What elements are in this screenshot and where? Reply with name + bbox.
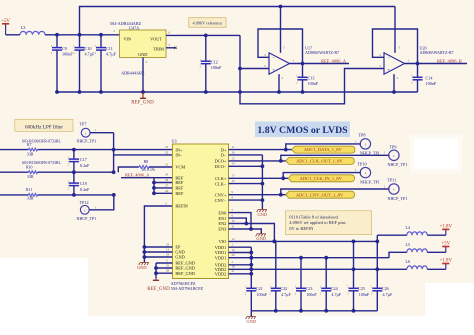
svg-text:REF_GND: REF_GND bbox=[147, 287, 170, 292]
wire +5V to L3 bbox=[6, 34, 20, 36]
svg-text:28: 28 bbox=[166, 269, 170, 273]
junction C12 top bbox=[204, 34, 208, 38]
svg-text:+: + bbox=[387, 67, 390, 72]
svg-text:VDD2: VDD2 bbox=[215, 272, 227, 277]
svg-text:CNV−: CNV− bbox=[215, 198, 227, 203]
svg-text:25: 25 bbox=[166, 263, 170, 267]
svg-text:L4: L4 bbox=[406, 225, 411, 230]
svg-text:R10: R10 bbox=[26, 166, 33, 170]
wire D+ to flag bbox=[229, 149, 292, 151]
svg-text:GND: GND bbox=[137, 265, 147, 270]
note REFIN configuration bbox=[285, 211, 371, 235]
svg-text:20: 20 bbox=[232, 253, 236, 257]
svg-text:R8: R8 bbox=[144, 160, 149, 164]
svg-text:IN−: IN− bbox=[175, 153, 183, 158]
svg-text:C19: C19 bbox=[80, 181, 87, 186]
svg-text:AD8065WARTZ-R7: AD8065WARTZ-R7 bbox=[420, 50, 454, 55]
junction C10 bottom bbox=[78, 90, 82, 94]
svg-text:8.2nF: 8.2nF bbox=[80, 163, 90, 168]
svg-text:−: − bbox=[272, 55, 275, 60]
junction C11 top bbox=[99, 33, 103, 37]
svg-text:GND: GND bbox=[258, 212, 268, 217]
svg-text:TP10: TP10 bbox=[358, 161, 367, 166]
svg-text:1: 1 bbox=[365, 171, 367, 175]
svg-text:EN3: EN3 bbox=[218, 227, 226, 232]
junction cap bottom bbox=[324, 309, 328, 313]
junction VDD2 tie bbox=[249, 267, 253, 271]
svg-text:L6: L6 bbox=[406, 259, 411, 264]
capacitor C14 100nF bbox=[411, 64, 437, 93]
test point TP7 bbox=[77, 122, 97, 144]
svg-text:VIO: VIO bbox=[219, 239, 227, 244]
svg-text:GND: GND bbox=[246, 319, 256, 324]
ground GND symbol EN bbox=[256, 234, 266, 237]
svg-text:C22: C22 bbox=[280, 286, 287, 291]
svg-text:100nF: 100nF bbox=[359, 292, 370, 297]
svg-text:C17: C17 bbox=[80, 157, 87, 162]
wire L3 to U47A VIN bbox=[45, 34, 120, 36]
wire VOUT to buffer + inputs (rail B) bbox=[240, 35, 384, 103]
svg-text:ADC1_CNV_OUT_1_8V: ADC1_CNV_OUT_1_8V bbox=[296, 192, 344, 197]
power port +1.8V bottom bbox=[445, 264, 447, 270]
svg-text:NHCP_TP1: NHCP_TP1 bbox=[360, 179, 380, 184]
wire CLK+ to flag bbox=[229, 177, 289, 179]
svg-text:NHCP_TP1: NHCP_TP1 bbox=[77, 139, 97, 144]
svg-text:NHCP_TP1: NHCP_TP1 bbox=[388, 196, 408, 201]
wire U17 V- down bbox=[278, 74, 280, 92]
junction U17 output / C13 bbox=[301, 62, 305, 66]
svg-text:L5: L5 bbox=[406, 242, 411, 247]
wire DCO+ to flag bbox=[229, 160, 286, 162]
svg-text:−: − bbox=[387, 55, 390, 60]
junction U47A GND bbox=[141, 90, 145, 94]
wire U20 feedback loop bbox=[373, 29, 418, 64]
svg-text:11: 11 bbox=[232, 145, 235, 149]
svg-text:ADC1_CLK_IN_1_8V: ADC1_CLK_IN_1_8V bbox=[300, 176, 343, 181]
svg-text:15: 15 bbox=[232, 156, 236, 160]
svg-text:+: + bbox=[272, 67, 275, 72]
svg-text:R11: R11 bbox=[26, 188, 32, 192]
svg-text:REF: REF bbox=[175, 180, 184, 185]
svg-text:+5V: +5V bbox=[441, 242, 450, 247]
junction cap bottom bbox=[274, 309, 278, 313]
svg-text:VIN: VIN bbox=[124, 37, 132, 42]
white margin bottom-left bbox=[0, 258, 88, 330]
svg-text:12: 12 bbox=[232, 237, 236, 241]
svg-text:27: 27 bbox=[165, 183, 169, 187]
svg-text:REF: REF bbox=[175, 191, 184, 196]
junction C19 bottom bbox=[72, 193, 76, 197]
junction C17 top bbox=[72, 148, 76, 152]
wire U17 V+ supply bbox=[280, 7, 282, 53]
svg-text:1.8V CMOS or LVDS: 1.8V CMOS or LVDS bbox=[257, 125, 348, 136]
svg-text:29: 29 bbox=[165, 173, 169, 177]
svg-text:TP11: TP11 bbox=[388, 178, 397, 183]
svg-text:28: 28 bbox=[165, 178, 169, 182]
svg-text:GND: GND bbox=[175, 255, 184, 260]
svg-text:13: 13 bbox=[166, 247, 170, 251]
svg-text:C24: C24 bbox=[331, 286, 338, 291]
port ADC1_CLK_OUT_1_8V bbox=[286, 157, 355, 164]
svg-text:VOUT: VOUT bbox=[150, 37, 162, 42]
no-connect cross TRIM bbox=[174, 47, 176, 49]
svg-text:4.7µF: 4.7µF bbox=[331, 292, 341, 297]
svg-text:30: 30 bbox=[232, 219, 236, 223]
svg-text:1: 1 bbox=[85, 131, 87, 135]
wire U20 output bbox=[405, 63, 468, 65]
inductor L3 bbox=[20, 31, 45, 34]
inductor L6 bbox=[407, 266, 427, 269]
svg-text:33R: 33R bbox=[27, 175, 34, 179]
capacitor C9 100nF bbox=[51, 35, 74, 92]
note 4.096V reference bbox=[189, 18, 226, 28]
svg-text:REFIN: REFIN bbox=[175, 204, 188, 209]
wire L4 to +1.8V bbox=[427, 234, 446, 236]
port ADC1_CNV_OUT_1_8V bbox=[286, 191, 355, 198]
svg-text:17: 17 bbox=[232, 174, 236, 178]
port ADC1_CLK_IN_1_8V bbox=[288, 175, 354, 182]
svg-text:+1.8V: +1.8V bbox=[440, 259, 453, 264]
svg-text:4.096V reference: 4.096V reference bbox=[193, 21, 223, 26]
capacitor C17 8.2nF bbox=[68, 150, 91, 173]
svg-text:0110 (Table 8 of datasheet): 0110 (Table 8 of datasheet) bbox=[289, 214, 339, 219]
wire to U17 +in bbox=[240, 68, 269, 70]
svg-text:8.2nF: 8.2nF bbox=[80, 187, 90, 192]
svg-text:4.7µF: 4.7µF bbox=[106, 51, 117, 56]
junction IN+ line bbox=[112, 148, 116, 152]
wire IN- to pin 22 bbox=[114, 154, 173, 156]
wire U47A GND down bbox=[142, 58, 144, 93]
wires VDD2 pins tie bbox=[229, 263, 254, 276]
svg-text:C12: C12 bbox=[211, 59, 218, 64]
port ADC1_DATA_1_8V bbox=[292, 146, 355, 153]
note 600kHz LPF filter bbox=[15, 119, 73, 131]
svg-text:4.096V ref applied to REF pins: 4.096V ref applied to REF pins bbox=[289, 220, 346, 225]
capacitor C25 100nF bbox=[347, 241, 370, 310]
svg-text:0V to REFIN: 0V to REFIN bbox=[289, 226, 314, 231]
wire VDD1 rail bbox=[229, 257, 390, 259]
power port +5V bbox=[5, 24, 7, 35]
junction C22/EN riser bbox=[273, 240, 277, 244]
junction C25 top bbox=[352, 240, 356, 244]
wire +5V top rail bbox=[80, 7, 396, 35]
svg-text:CLK+: CLK+ bbox=[215, 176, 227, 181]
svg-text:L3: L3 bbox=[21, 25, 26, 30]
wire L5 to +5V bbox=[427, 251, 446, 253]
capacitor C13 100nF bbox=[296, 64, 319, 93]
junction IN- line bbox=[112, 170, 116, 174]
svg-text:AD8065WARTZ-R7: AD8065WARTZ-R7 bbox=[305, 50, 339, 55]
wire U17 feedback loop bbox=[258, 29, 303, 64]
junction U20 V- bbox=[392, 90, 396, 94]
svg-text:C23: C23 bbox=[306, 286, 313, 291]
svg-text:C21: C21 bbox=[256, 286, 263, 291]
ground REF_GND symbol bbox=[142, 92, 144, 98]
svg-text:C25: C25 bbox=[358, 286, 365, 291]
svg-text:100nF: 100nF bbox=[306, 292, 317, 297]
ground REF_GND symbol left bbox=[155, 278, 157, 280]
svg-text:D−: D− bbox=[221, 153, 227, 158]
svg-text:VDD1: VDD1 bbox=[215, 245, 227, 250]
svg-text:4.7µF: 4.7µF bbox=[85, 51, 96, 56]
svg-text:R7: R7 bbox=[27, 143, 32, 147]
test point TP9 bbox=[388, 144, 408, 167]
svg-text:4.7µF: 4.7µF bbox=[281, 292, 291, 297]
svg-text:REF_4096_B: REF_4096_B bbox=[437, 59, 462, 64]
wire TP7 riser down bbox=[113, 133, 115, 173]
ground GND symbol minus pins bbox=[257, 210, 267, 213]
wire R11 line to TP12 bbox=[89, 195, 114, 210]
capacitor C11 4.7uF bbox=[95, 35, 117, 92]
svg-text:100nF: 100nF bbox=[308, 81, 319, 86]
wire L6 to +1.8V bbox=[427, 268, 446, 270]
wire VIO rail bbox=[229, 240, 378, 242]
svg-text:100nF: 100nF bbox=[62, 51, 73, 56]
svg-text:U47A: U47A bbox=[129, 25, 139, 30]
junction CNV+ split bbox=[279, 193, 283, 197]
ground GND symbol left bbox=[139, 263, 149, 266]
test point TP12 bbox=[77, 200, 97, 221]
wire U17 output bbox=[290, 63, 350, 65]
svg-text:TP7: TP7 bbox=[80, 122, 87, 127]
op-amp U20 AD8065WARTZ-R7 bbox=[373, 7, 468, 93]
wires VDD1 pins tie bbox=[229, 247, 254, 254]
svg-text:100nF: 100nF bbox=[211, 65, 222, 70]
svg-text:TP12: TP12 bbox=[80, 200, 89, 205]
power port +1.8V top bbox=[445, 229, 447, 235]
svg-text:ADC1_DATA_1_8V: ADC1_DATA_1_8V bbox=[304, 147, 343, 152]
wire to TP11 bbox=[281, 189, 390, 195]
junction C9 bottom bbox=[55, 90, 59, 94]
svg-text:1: 1 bbox=[393, 188, 395, 192]
svg-text:31: 31 bbox=[232, 224, 236, 228]
wire VDD1 to L5 bbox=[389, 252, 407, 257]
svg-text:C11: C11 bbox=[106, 46, 113, 51]
junction TP12 drop bbox=[112, 193, 116, 197]
wire to TP8 bbox=[286, 144, 361, 150]
wire CNV+ to flag bbox=[229, 194, 286, 196]
svg-text:4.7µF: 4.7µF bbox=[383, 292, 393, 297]
resistor R10 33R bbox=[0, 161, 114, 179]
op-amp U17 AD8065WARTZ-R7 bbox=[258, 7, 349, 93]
capacitor C23 100nF bbox=[295, 258, 318, 311]
junction C24 top bbox=[324, 256, 328, 260]
wires EP/GND pins to GND bbox=[143, 245, 173, 259]
svg-text:GND: GND bbox=[256, 236, 266, 241]
wires D-/DCO-/CLK-/CNV- to GND bbox=[229, 155, 265, 209]
svg-text:EN1: EN1 bbox=[218, 216, 226, 221]
junction cap bottom bbox=[299, 309, 303, 313]
junction C10 top / +5V rail riser bbox=[78, 33, 82, 37]
capacitor C21 100nF bbox=[245, 286, 268, 311]
svg-text:REF_GND: REF_GND bbox=[131, 101, 154, 106]
svg-text:TRIM: TRIM bbox=[153, 47, 164, 52]
junction cap bottom bbox=[352, 309, 356, 313]
capacitor C24 4.7µF bbox=[320, 258, 342, 311]
svg-text:REF_4096_A: REF_4096_A bbox=[125, 172, 150, 177]
wire REF_GND rail bbox=[57, 91, 418, 93]
svg-text:100nF: 100nF bbox=[426, 81, 437, 86]
junction C17/C19 mid bbox=[72, 170, 76, 174]
wire U20 V- down bbox=[393, 74, 395, 92]
capacitor C22 4.7µF bbox=[270, 241, 292, 310]
ground GND symbol bottom bbox=[246, 317, 256, 320]
svg-text:C26: C26 bbox=[382, 286, 389, 291]
svg-text:33R: 33R bbox=[27, 197, 34, 201]
svg-text:1: 1 bbox=[84, 208, 86, 212]
junction C13 bottom bbox=[301, 90, 305, 94]
svg-text:1: 1 bbox=[365, 143, 367, 147]
svg-text:C9: C9 bbox=[62, 46, 67, 51]
svg-text:TP9: TP9 bbox=[390, 144, 397, 149]
wires REF_GND pins bbox=[154, 263, 172, 278]
junction U17 V- bbox=[277, 90, 281, 94]
test point TP10 bbox=[358, 161, 380, 184]
wire C21 riser / VDD tie bbox=[250, 247, 252, 288]
wire GND stem bbox=[250, 311, 252, 317]
svg-text:21: 21 bbox=[165, 162, 169, 166]
capacitor C19 8.2nF bbox=[68, 172, 91, 195]
inductor L4 bbox=[407, 232, 427, 235]
wire VDD2 rail bbox=[229, 268, 407, 270]
svg-text:U3: U3 bbox=[172, 139, 177, 144]
svg-text:CLK−: CLK− bbox=[215, 181, 227, 186]
junction top rail to U17 supply bbox=[279, 5, 283, 9]
inductor L5 bbox=[407, 249, 427, 252]
svg-text:IN+: IN+ bbox=[175, 147, 183, 152]
svg-text:NHCP_TP1: NHCP_TP1 bbox=[77, 216, 97, 221]
svg-text:CNV+: CNV+ bbox=[215, 192, 227, 197]
svg-text:24: 24 bbox=[166, 252, 170, 256]
resistor R7 33R bbox=[0, 140, 172, 157]
resistor R11 33R bbox=[0, 188, 114, 201]
wires EN0-EN3 bbox=[229, 213, 275, 242]
svg-text:EN2: EN2 bbox=[218, 221, 226, 226]
svg-text:504-AD7961BCPZ: 504-AD7961BCPZ bbox=[171, 286, 204, 291]
svg-text:33R: 33R bbox=[27, 152, 34, 156]
ADC U3 AD7961BCPZ bbox=[172, 139, 229, 279]
resistor R8 1K 0.1% bbox=[118, 160, 172, 172]
junction DCO+ split bbox=[279, 159, 283, 163]
wire to TP10 bbox=[283, 173, 361, 179]
svg-text:19: 19 bbox=[232, 248, 236, 252]
junction D+ split bbox=[284, 148, 288, 152]
junction CLK+ split bbox=[281, 176, 285, 180]
capacitor C10 4.7uF bbox=[73, 35, 95, 92]
power port +5V right bbox=[445, 247, 447, 253]
svg-text:EN0: EN0 bbox=[218, 210, 226, 215]
wire REF_4096_A to REF pins bbox=[121, 178, 172, 196]
svg-text:1: 1 bbox=[393, 154, 395, 158]
svg-text:VCM: VCM bbox=[175, 165, 185, 170]
voltage reference U47A ADR444ARZ bbox=[110, 21, 171, 75]
note 1.8V CMOS or LVDS bbox=[255, 122, 350, 138]
svg-text:14: 14 bbox=[232, 162, 236, 166]
svg-text:DCO−: DCO− bbox=[215, 164, 227, 169]
svg-text:C10: C10 bbox=[85, 46, 92, 51]
junction C9 top bbox=[55, 33, 59, 37]
svg-text:C13: C13 bbox=[308, 76, 315, 81]
junction rail crossing bbox=[238, 90, 242, 94]
svg-text:REF_GND: REF_GND bbox=[175, 271, 195, 276]
svg-text:ADC1_CLK_OUT_1_8V: ADC1_CLK_OUT_1_8V bbox=[296, 159, 343, 164]
junction C23 top bbox=[299, 256, 303, 260]
capacitor C12 100nF bbox=[200, 35, 223, 92]
svg-text:10: 10 bbox=[232, 150, 236, 154]
junction U17 +in tap bbox=[238, 67, 242, 71]
wire VOUT bbox=[166, 34, 240, 36]
junction C26 VIO bbox=[375, 240, 379, 244]
capacitor C26 4.7µF bbox=[371, 235, 393, 311]
svg-text:VDD1: VDD1 bbox=[215, 255, 227, 260]
svg-text:+1.8V: +1.8V bbox=[440, 225, 453, 230]
junction C12 bottom bbox=[204, 90, 208, 94]
svg-text:GND: GND bbox=[138, 52, 147, 57]
wire bottom GND rail bbox=[251, 310, 377, 312]
svg-text:33: 33 bbox=[166, 242, 170, 246]
svg-text:TP8: TP8 bbox=[359, 132, 366, 137]
TRIM no-connect stub bbox=[166, 47, 176, 49]
white patch right middle bbox=[414, 138, 458, 169]
svg-text:26: 26 bbox=[165, 189, 169, 193]
test point TP11 bbox=[388, 178, 408, 201]
svg-text:DCO+: DCO+ bbox=[215, 159, 227, 164]
svg-text:600kHz LPF filter: 600kHz LPF filter bbox=[25, 124, 63, 131]
svg-text:603-RC0603FR-0733RL: 603-RC0603FR-0733RL bbox=[22, 161, 62, 165]
wire U20 V+ supply bbox=[394, 7, 396, 53]
junction C11 bottom bbox=[99, 90, 103, 94]
wire to TP9 bbox=[281, 155, 390, 161]
junction U20 output / C14 bbox=[416, 62, 420, 66]
white margin bottom-right bbox=[425, 283, 474, 330]
svg-text:REF_4096_A: REF_4096_A bbox=[321, 59, 347, 64]
test point TP8 bbox=[359, 132, 380, 155]
svg-text:23: 23 bbox=[165, 145, 169, 149]
svg-text:NHCP_TP1: NHCP_TP1 bbox=[388, 162, 408, 167]
junction C26 VDD2 bbox=[375, 267, 379, 271]
wire REFIN to GND bbox=[144, 206, 172, 262]
wire VIO to L4 bbox=[377, 234, 407, 236]
wire TP7 to IN+ line bbox=[90, 132, 114, 134]
junction VDD1 tie bbox=[249, 256, 253, 260]
svg-text:16: 16 bbox=[232, 179, 236, 183]
svg-text:REF: REF bbox=[175, 186, 184, 191]
svg-text:100nF: 100nF bbox=[257, 292, 268, 297]
svg-text:22: 22 bbox=[165, 150, 169, 154]
white margin bottom strip bbox=[0, 316, 474, 330]
svg-text:+5V: +5V bbox=[1, 19, 10, 24]
svg-text:C14: C14 bbox=[426, 76, 434, 81]
junction C25 VDD2 bbox=[352, 267, 356, 271]
svg-text:ADR444ARZ: ADR444ARZ bbox=[121, 70, 145, 75]
svg-text:D+: D+ bbox=[221, 147, 227, 152]
